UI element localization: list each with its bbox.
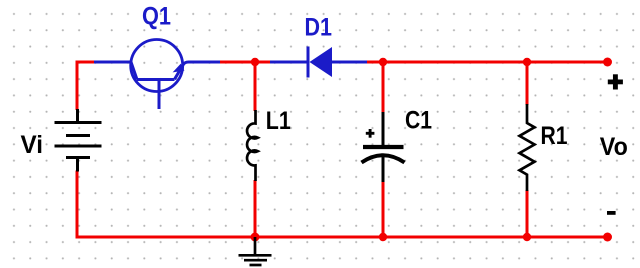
inductor L1 <box>247 110 258 181</box>
wire node A down to L1 <box>254 62 257 111</box>
node A junction dot <box>251 58 259 66</box>
output + polarity label <box>608 74 623 89</box>
output + terminal dot <box>603 58 612 67</box>
ground <box>239 237 272 265</box>
svg-text:C1: C1 <box>405 106 432 134</box>
transistor Q1 <box>94 40 220 110</box>
svg-text:Vi: Vi <box>21 131 44 159</box>
wire Vi+ to top rail (left vertical) <box>76 61 79 111</box>
wire R1 to bottom rail <box>526 190 529 237</box>
svg-text:D1: D1 <box>305 14 333 42</box>
battery Vi <box>55 109 102 172</box>
node R1-bottom junction dot <box>523 233 531 241</box>
node R1-top junction dot <box>523 58 531 66</box>
output - terminal dot <box>603 233 612 242</box>
svg-text:Vo: Vo <box>600 133 628 161</box>
wire Q1 emitter to node A <box>219 61 256 64</box>
label L1 <box>266 107 291 135</box>
wire top-left horizontal to Q1 <box>76 61 96 64</box>
wire top node to C1 <box>382 62 385 113</box>
wire C1 to bottom rail <box>382 181 385 237</box>
node C1-top junction dot <box>379 58 387 66</box>
svg-text:R1: R1 <box>541 122 568 150</box>
wire D1 to output + rail <box>366 61 608 64</box>
svg-text:Q1: Q1 <box>142 3 171 31</box>
node ground junction dot <box>251 233 260 242</box>
label Vi <box>21 131 44 159</box>
resistor R1 <box>520 104 535 191</box>
label D1 <box>305 14 333 42</box>
diode D1 <box>270 47 367 78</box>
label Vo <box>600 133 628 161</box>
output - polarity label <box>607 211 616 215</box>
wire bottom rail <box>76 236 608 239</box>
label Q1 <box>142 3 171 31</box>
label R1 <box>541 122 568 150</box>
transistor Q1 emitter arrow <box>173 64 185 73</box>
node C1-bottom junction dot <box>379 233 387 241</box>
label C1 <box>405 106 432 134</box>
svg-text:L1: L1 <box>266 107 291 135</box>
wire node A to D1 <box>255 61 271 64</box>
capacitor C1 <box>362 112 405 182</box>
capacitor C1 plus polarity mark <box>366 129 375 138</box>
wire L1 to ground rail <box>254 180 257 237</box>
wire top node to R1 <box>526 62 529 105</box>
wire Vi- to bottom rail <box>76 171 79 239</box>
